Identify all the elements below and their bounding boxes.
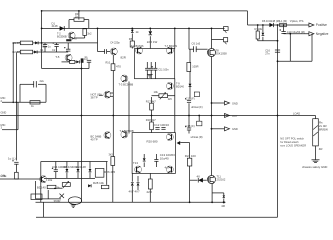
terminal arrow out2 (225, 114, 230, 118)
wire V7 inter box (174, 92, 176, 133)
svg-text:4V: 4V (197, 175, 201, 179)
wire C2 stub (56, 43, 58, 52)
capacitor C19b (0, 0, 1, 1)
svg-text:R20 680: R20 680 (147, 139, 158, 143)
wire box right drop (106, 162, 108, 185)
resistor R25 (256, 31, 259, 39)
resistor RL load (313, 119, 319, 146)
wire rc top (20, 83, 46, 85)
label Q2 BC556 (42, 45, 51, 49)
ground inside box (147, 75, 152, 78)
wire V7 lower link (174, 79, 176, 92)
wire upper supply rail (42, 27, 225, 29)
label out3 (232, 127, 238, 131)
wire rc left (19, 84, 21, 102)
transistor T13 (135, 166, 142, 173)
label T14 (165, 165, 170, 169)
svg-text:T-7 BD139: T-7 BD139 (165, 44, 178, 48)
capacitor C12 (154, 123, 169, 129)
label T6 (131, 44, 144, 48)
label uFloat1 (191, 105, 203, 109)
svg-text:LOAD: LOAD (293, 111, 300, 115)
svg-text:4V7 4V7: 4V7 4V7 (129, 190, 140, 194)
capacitor C17 (185, 98, 191, 115)
feedback resistor R6 (70, 60, 75, 63)
svg-text:100R: 100R (192, 65, 198, 69)
diode D1 (60, 26, 65, 31)
svg-text:3k3: 3k3 (109, 152, 114, 156)
ground chassis (312, 160, 320, 163)
wire bottom return (36, 216, 278, 218)
wire box left lower (0, 0, 1, 1)
capacitor C1 (41, 42, 47, 46)
capacitor C19a (280, 29, 286, 33)
capacitor C12b (161, 128, 165, 130)
label D5 (197, 175, 201, 179)
resistor R4 (83, 29, 87, 36)
wire output node upper (211, 57, 213, 116)
svg-text:4u7: 4u7 (165, 165, 170, 169)
svg-text:R18 4k7: R18 4k7 (146, 118, 157, 122)
label out1 (232, 101, 238, 105)
svg-text:40 TP: 40 TP (91, 138, 98, 142)
label R8 (129, 37, 133, 41)
diode D6 (269, 23, 273, 27)
node f (174, 28, 176, 30)
label positive (316, 23, 327, 27)
node k (131, 28, 133, 30)
svg-text:2k5: 2k5 (168, 98, 173, 101)
svg-text:10k: 10k (48, 178, 53, 182)
node l (277, 40, 279, 42)
wire riser h8 (43, 202, 45, 217)
wire psu positive feed (248, 24, 309, 26)
label 10k (154, 90, 159, 94)
wire row41 extension (42, 42, 98, 44)
capacitor C7 on loop (34, 81, 37, 87)
svg-text:BD140: BD140 (37, 186, 46, 190)
node b (41, 10, 43, 12)
wire mid chain 2 (151, 110, 153, 122)
wire lower mosfet drain (211, 184, 213, 203)
node h (277, 115, 279, 117)
label C18 (186, 124, 195, 128)
label R1 (12, 41, 22, 45)
label C14 (52, 165, 67, 169)
label R3 (75, 12, 79, 19)
label D11 D12 (129, 190, 140, 194)
diode D1b (34, 50, 37, 53)
wire load down (315, 146, 317, 160)
wire psu corner (247, 11, 249, 25)
label R31 (1, 174, 6, 178)
capacitor C3 (87, 60, 91, 62)
wire c22 stub (15, 164, 17, 172)
label T10 (147, 139, 158, 143)
wire T3 collector (0, 0, 1, 1)
label R17 (146, 99, 157, 103)
wire psu pair bottom (258, 39, 263, 41)
capacitor C11b (149, 62, 153, 79)
wire cluster links (36, 181, 63, 199)
svg-text:GND: GND (232, 101, 238, 105)
capacitor C16 (275, 50, 280, 52)
gate tap blob (177, 141, 181, 145)
resistor R26 (148, 179, 152, 189)
wire R1 left (13, 42, 20, 44)
wire rc right (45, 84, 47, 102)
svg-text:C2: C2 (52, 48, 56, 52)
trimpot P1 (62, 181, 70, 188)
svg-text:C1: C1 (40, 48, 44, 52)
wire V9 right column (277, 24, 279, 217)
svg-text:BD140: BD140 (176, 84, 184, 88)
mosfet T8 (208, 49, 216, 57)
resistor R17 (150, 103, 154, 110)
svg-text:C17 (F): C17 (F) (186, 97, 195, 101)
wire row52 extension (42, 51, 69, 53)
label T13 (133, 161, 138, 165)
diode D3 (131, 28, 134, 41)
label R15 (192, 65, 198, 69)
svg-text:GND: GND (1, 110, 7, 114)
label out2 (232, 114, 238, 118)
label R4 (87, 32, 92, 36)
capacitor C2a (64, 43, 70, 51)
label R29 (54, 199, 61, 203)
mosfet T11 (208, 176, 216, 184)
label D6 (262, 19, 280, 23)
wire box mid row (44, 177, 95, 179)
capacitor C11c (152, 62, 158, 79)
gate column R15 (187, 49, 191, 99)
label D8 (76, 165, 87, 169)
wire gate tap (180, 143, 189, 159)
wire q5 q7 link (99, 93, 113, 96)
label R18 (146, 118, 157, 122)
label C1 C2 (40, 48, 56, 52)
node i (211, 201, 213, 203)
label C3 (84, 57, 88, 61)
svg-text:T13: T13 (133, 161, 138, 165)
fuse F2 glyph (197, 115, 202, 126)
resistor R2 47k (20, 50, 32, 54)
wire V7 vas column (174, 28, 176, 48)
wire r19 down (112, 165, 114, 202)
terminal arrow out1 (212, 101, 230, 105)
wire lower supply rail (36, 201, 226, 203)
label R25 (255, 27, 263, 31)
wire c19b (289, 33, 291, 62)
resistor R27 (47, 185, 56, 188)
wire bias links (152, 95, 175, 97)
jumper ellipse (68, 197, 81, 205)
wire box top (41, 161, 108, 163)
svg-text:C6 1n5: C6 1n5 (192, 42, 201, 46)
node d (112, 115, 114, 117)
label input mic3 (1, 123, 6, 130)
wire psu pair top (257, 24, 264, 31)
wire V5 tail column (80, 59, 82, 203)
wire C3 down (88, 62, 90, 68)
svg-text:Negative: Negative (316, 32, 329, 36)
label T7 (165, 44, 178, 48)
terminal arrow negative (309, 32, 314, 36)
node g (211, 28, 213, 30)
transistor T4 (110, 48, 117, 55)
svg-text:10k: 10k (154, 90, 159, 94)
svg-text:T-5: T-5 (55, 55, 60, 59)
node j (149, 28, 151, 30)
svg-text:T-6 BC546: T-6 BC546 (131, 44, 144, 48)
transistor T10 (166, 134, 173, 141)
diode D5 (198, 178, 203, 183)
resistor R12 (149, 28, 153, 40)
wire R2 right (33, 51, 42, 53)
svg-text:Vplus, PS: Vplus, PS (290, 19, 304, 23)
node out rail (188, 102, 212, 130)
wire c19a (283, 24, 285, 34)
svg-text:GND: GND (232, 127, 238, 131)
node e (151, 115, 153, 117)
wire negative psu lead (284, 33, 309, 35)
diode D13 (65, 162, 68, 179)
diode D1a (35, 41, 38, 44)
wire load corner (315, 116, 317, 119)
svg-text:82R: 82R (121, 56, 126, 60)
wire R4 up (84, 27, 86, 29)
svg-text:2SJ162: 2SJ162 (217, 177, 226, 181)
wire output rail (0, 115, 316, 117)
label R5 (31, 104, 34, 108)
resistor R30 (101, 185, 108, 188)
wire gate wire (189, 48, 208, 50)
zener D7 (262, 31, 265, 39)
svg-text:uFloat (F): uFloat (F) (191, 105, 203, 109)
wire R1 right (33, 42, 42, 44)
transistor T2 (68, 32, 75, 39)
svg-text:Positive: Positive (316, 23, 327, 27)
svg-text:546: 546 (72, 37, 77, 41)
cap inside C21 (154, 154, 158, 167)
wire psu bottom row (258, 40, 278, 42)
diode D8 (77, 162, 80, 179)
svg-text:R8: R8 (129, 37, 133, 41)
wire V2 left drop (16, 53, 18, 161)
svg-text:8R/5W: 8R/5W (319, 128, 328, 132)
wire output node lower (211, 116, 213, 176)
label T8 (216, 49, 228, 56)
feedback diode D2 (76, 60, 79, 63)
label P2 (168, 98, 173, 101)
svg-text:C11 100n: C11 100n (158, 68, 169, 71)
wire V4 input column (41, 11, 43, 69)
wire negative loop (277, 34, 312, 62)
zener D11 (131, 173, 134, 202)
label fb (84, 55, 88, 59)
capacitor C22 (12, 160, 18, 164)
label T11 (217, 175, 226, 182)
node feedback blob (81, 58, 84, 62)
zener ZD1 (189, 84, 192, 87)
inductor L1 (280, 23, 287, 26)
wire rc bottom (2, 101, 46, 103)
resistor R8 (130, 41, 134, 49)
wire top positive rail (42, 10, 248, 12)
label T3 (55, 55, 60, 59)
wire V1 left drop (12, 43, 14, 103)
wire vas feed (97, 28, 99, 52)
wire line input bottom (0, 178, 41, 180)
label C20 (64, 165, 79, 169)
svg-text:1k2: 1k2 (87, 32, 92, 36)
wire t11 gate stub (212, 193, 224, 195)
resistor R3 (74, 18, 84, 21)
node c (81, 115, 83, 117)
label vplus (290, 19, 304, 23)
wire d5 wire (190, 179, 207, 181)
svg-text:OUT: OUT (232, 114, 238, 118)
box lower mirror (132, 133, 175, 174)
wire V6 mid column (112, 55, 114, 157)
zener gate ZD3 (221, 195, 225, 208)
svg-text:1n: 1n (84, 55, 88, 59)
label R27 (57, 186, 61, 190)
terminal arrow positive (309, 23, 314, 27)
label R10b (116, 65, 121, 69)
label Q7 (119, 83, 134, 87)
wire C1 stub (44, 43, 46, 52)
svg-text:NO OPT POL switch: NO OPT POL switch (280, 137, 304, 141)
label R28 (93, 181, 104, 185)
svg-text:L1 (M): L1 (M) (280, 19, 288, 23)
trimpot P2 bias (159, 92, 168, 99)
current source loop (69, 20, 89, 29)
resistor R1 47k (20, 41, 32, 45)
svg-text:1u (L): 1u (L) (8, 156, 16, 160)
fuse F1 glyph (194, 92, 199, 97)
svg-text:C4 220p: C4 220p (110, 42, 120, 45)
label T9 (176, 82, 184, 89)
wire mid chain top (149, 40, 151, 49)
ground jumper (71, 205, 76, 208)
label C4 (110, 42, 120, 45)
blob T2 emitter (66, 37, 77, 42)
resistor R31 (15, 172, 19, 179)
label T2 (57, 32, 67, 39)
label line input (1, 174, 7, 178)
gate network C15 (212, 38, 228, 45)
capacitor C4 (105, 49, 107, 54)
label Q6 (91, 135, 102, 142)
label C6 (192, 42, 201, 46)
svg-text:22u: 22u (40, 79, 45, 83)
zener D9 (89, 162, 92, 179)
label C16 (265, 49, 270, 56)
svg-text:BC556B: BC556B (57, 35, 67, 39)
label input mic2 (1, 96, 6, 103)
svg-text:R28 10k: R28 10k (93, 181, 104, 185)
label R2 (12, 50, 22, 54)
transistor Q6 lower (104, 132, 111, 139)
transistor T14 (166, 166, 173, 173)
resistor R19 3k3 (111, 157, 115, 166)
label R24 (185, 154, 196, 158)
label R26 (147, 190, 152, 194)
label C19 (287, 30, 305, 34)
label R10 (106, 61, 111, 64)
label C11 (158, 68, 169, 71)
wire output mos drain (211, 28, 213, 48)
wire feedback links (62, 61, 77, 63)
svg-text:22R 1W: 22R 1W (147, 40, 158, 44)
node a (41, 28, 43, 30)
label gnd left (1, 110, 7, 114)
svg-text:4R: 4R (221, 204, 225, 208)
wire mic3 drop (17, 102, 19, 129)
node fb dot (81, 68, 83, 70)
transistor T6 (136, 47, 143, 54)
label RL (319, 120, 328, 151)
svg-text:T-4 BC546B: T-4 BC546B (120, 129, 134, 133)
label C22 (8, 156, 16, 160)
svg-text:R24 100: R24 100 (185, 154, 196, 158)
wire T2 links (74, 35, 85, 38)
resistor R29 (60, 194, 65, 198)
capacitor C14 (52, 162, 58, 179)
svg-text:10u/40: 10u/40 (160, 156, 169, 160)
node input junction (41, 42, 43, 44)
label chassis (302, 165, 327, 169)
wire loop feed (78, 10, 80, 20)
svg-text:C18 (F): C18 (F) (186, 124, 195, 128)
resistor R18 (150, 122, 154, 130)
transistor Q8 lower right (121, 131, 128, 138)
diode D10 (88, 184, 91, 187)
transistor T7 (166, 47, 173, 54)
svg-text:4R: 4R (319, 147, 323, 151)
wire mid chain 3 (151, 130, 153, 133)
transistor Q7 upper right (121, 75, 128, 82)
terminal arrow out3 (212, 127, 230, 131)
svg-text:360R: 360R (54, 199, 61, 203)
svg-text:som LOUD SPEAKER: som LOUD SPEAKER (280, 144, 306, 148)
label Q8 (120, 129, 134, 133)
svg-text:22R: 22R (147, 190, 152, 194)
svg-text:T-3 BC546B: T-3 BC546B (119, 83, 134, 87)
wire bottom right riser (0, 0, 1, 1)
capacitor C6 (194, 46, 197, 52)
svg-text:chassis safety GND: chassis safety GND (302, 165, 327, 169)
label C21 (160, 153, 175, 160)
svg-text:R26 4k5: R26 4k5 (104, 170, 115, 174)
transistor Q5 upper (104, 91, 111, 98)
wire c6 gate column (188, 28, 190, 50)
label reg (104, 170, 115, 174)
svg-text:470: 470 (116, 65, 121, 69)
svg-text:38 TP: 38 TP (91, 96, 98, 100)
wire R2 left (16, 51, 20, 53)
gate network R21 (224, 27, 229, 33)
svg-text:R17 4k7: R17 4k7 (146, 99, 157, 103)
svg-text:for Rload attach: for Rload attach (280, 140, 299, 144)
wire feedback row (42, 68, 89, 70)
wire C4 wires (98, 51, 111, 53)
label 82R (121, 56, 126, 60)
svg-text:D6 1N4148 (M): D6 1N4148 (M) (262, 19, 280, 23)
wire r24 down (189, 166, 191, 203)
capacitor C11a (145, 62, 149, 79)
